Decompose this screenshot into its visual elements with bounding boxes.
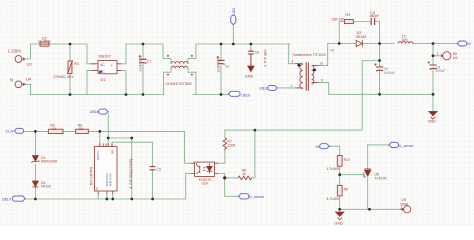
wire C8 gnd branch [250,44,252,50]
connector U3 [15,56,22,63]
svg-text:680pF: 680pF [370,14,380,18]
resistor R8 zigzag [238,176,252,180]
wire 5V flag to R10 [329,146,340,155]
capacitor C3 [150,167,156,170]
wire EN pin drop [99,131,101,146]
wire secondary pin6 down [318,83,329,95]
wire varistor bottom drop [69,74,71,95]
capacitor C4 [371,18,374,25]
varistor R1 [68,61,72,73]
svg-text:R3: R3 [345,13,350,17]
svg-text:R1: R1 [74,61,80,66]
resistor R10 [337,156,342,167]
svg-text:4.7nF 3kV: 4.7nF 3kV [263,49,268,67]
wire bottom mains rail left [31,94,164,96]
svg-text:SNK RTN: SNK RTN [108,173,112,186]
wire line to C3a [108,138,132,199]
wire choke top entry [163,44,171,64]
svg-text:10uF 400V: 10uF 400V [216,55,220,72]
svg-text:AC: AC [100,63,105,67]
gnd symbol secondary top [429,111,437,115]
wire bottom rail to C2 [193,94,221,96]
resistor R7 zigzag [223,138,227,150]
wire secondary gnd bottom rail [340,208,400,210]
svg-text:U$10: U$10 [241,94,250,98]
transformer T2 primary winding [300,65,303,89]
wire TL431 anode [367,178,369,210]
resistor R9 [337,185,342,196]
optocoupler U10 pin stubs [191,163,218,173]
svg-text:SR160: SR160 [356,35,366,39]
svg-text:U3: U3 [27,61,33,66]
transformer phase dot secondary [313,69,316,72]
svg-text:R10: R10 [344,158,350,162]
svg-text:P6KE200A: P6KE200A [41,159,58,163]
choke L5 bottom winding [171,66,188,68]
wire U3 to fuse [22,44,40,59]
wire secondary gnd rail [329,93,433,95]
svg-text:U4: U4 [26,77,32,82]
wire R7 top [224,130,226,138]
choke pin marks [167,55,193,76]
wire 5V tap line [225,61,380,131]
wire choke top exit and DC rail [188,44,290,64]
svg-text:GND: GND [245,75,254,79]
svg-text:TL431N: TL431N [374,177,387,181]
wire rail end to U$10 flag [221,94,228,96]
diode D3 TVS [32,156,38,162]
svg-text:T2: T2 [330,48,334,52]
capacitor C6 [429,65,436,69]
svg-text:1M: 1M [79,127,84,131]
inductor L2 [398,42,413,44]
flag U$2 top [231,15,236,25]
svg-text:U$16: U$16 [90,110,99,114]
svg-text:EN/UV: EN/UV [96,151,100,160]
svg-text:C3: C3 [156,167,160,171]
wire drain flag drop [107,114,109,147]
flag U$10 rail end [228,91,240,96]
svg-text:10uF 400V: 10uF 400V [138,54,142,71]
connector U9 [404,206,411,213]
svg-text:1M: 1M [51,127,56,131]
wire BP line to C3 [112,142,152,199]
wire source rail [25,198,186,200]
wire primary pin1 from flag [277,87,295,89]
wire EN line down to opto [185,131,192,163]
svg-text:4.7k 805: 4.7k 805 [326,197,339,201]
svg-text:U_sense: U_sense [399,144,414,148]
svg-text:4.7uF 50V(100nF): 4.7uF 50V(100nF) [129,159,133,189]
wire C5 leads [379,44,381,95]
svg-text:U6: U6 [453,56,458,60]
wire bridge AC2 down [87,70,95,94]
wire U6 branch [433,44,442,56]
TL431 U8 [365,170,371,176]
wire R10 R9 junction [339,166,341,185]
diode D4 [32,181,38,187]
svg-text:GND: GND [334,221,343,225]
wire divider to TL431 ref [340,174,364,176]
svg-text:R9: R9 [344,187,348,191]
optocoupler U10 body [195,162,215,176]
wire C1 leads [142,44,144,95]
svg-text:CHOKE EXT8W: CHOKE EXT8W [166,82,193,86]
wire choke bottom exit [188,68,196,94]
svg-text:1000uF: 1000uF [384,71,396,75]
connector U4 [15,81,22,88]
resistor R3 [344,19,353,23]
svg-text:5V: 5V [316,145,321,149]
svg-text:1: 1 [291,84,293,88]
wire primary pin3 [289,44,296,64]
wire bridge minus down [121,70,126,94]
transformer T2 secondary winding [312,66,314,84]
wire bridge plus up to DC rail [121,44,162,64]
flag CLN [14,128,23,133]
capacitor C2 [217,60,224,64]
svg-text:15R 2W: 15R 2W [332,18,345,22]
svg-text:5V: 5V [467,42,472,46]
svg-text:AC: AC [100,69,105,73]
IC U7 top pin stubs [100,143,112,146]
svg-text:D1: D1 [101,77,107,82]
svg-text:6: 6 [321,79,323,83]
wire snubber R3 C4 [339,22,379,44]
wire secondary top rail [328,43,458,45]
svg-text:L 230V: L 230V [8,49,21,54]
wire U$2 flag drop [232,25,234,44]
bridge rectifier D1 [98,61,117,74]
flag U_sense right [389,142,399,147]
svg-text:10: 10 [319,62,323,66]
wire secondary pin10 up [318,44,328,66]
svg-text:U$10: U$10 [2,197,11,201]
svg-text:C1: C1 [147,60,152,64]
wire opto emitter [186,174,192,200]
wire C6 leads and gnd drop [432,44,434,112]
svg-text:TNY267PN: TNY267PN [89,167,93,186]
transformer T2 core [306,62,308,90]
wire opto anode to R7 [218,150,225,163]
fuse U2 [40,42,49,46]
flag 5V right [457,41,467,46]
svg-text:120R: 120R [227,143,236,147]
wire varistor top drop [69,44,71,61]
resistor R6 [76,129,89,133]
wire U_sense right flag [368,144,389,146]
svg-text:U10: U10 [202,181,208,185]
flag U$16 TNY [99,109,109,114]
choke L5 top winding [171,62,188,64]
wire TNY bottom stubs [98,194,113,199]
wire D3 D4 column [34,131,36,199]
optocoupler U10 led [207,166,213,171]
svg-text:1uH: 1uH [401,38,408,42]
svg-text:U$2: U$2 [232,8,236,15]
svg-text:N: N [10,78,13,83]
svg-text:U_sense: U_sense [249,195,264,199]
svg-text:CLN: CLN [6,129,14,133]
IC U7 bottom pin stubs [98,191,113,194]
svg-text:FR109: FR109 [41,185,51,189]
transformer phase dot primary [298,64,301,67]
capacitor C8 [248,50,254,67]
wire R9 to gnd rail [339,196,341,209]
capacitor C5 [376,67,383,71]
svg-text:C8: C8 [255,51,259,55]
svg-text:DB107: DB107 [99,54,112,59]
gnd symbol divider [336,212,344,216]
svg-text:GND: GND [428,120,437,124]
net flags blue [12,15,466,201]
svg-text:1k: 1k [242,172,246,176]
flag U$10 bottom left [12,196,25,201]
wire choke bottom entry [164,68,171,94]
connector U6 [443,52,451,60]
flag U_sense left [238,194,249,199]
optocoupler U10 transistor [196,163,199,174]
IC U7 TNY267 body [95,147,118,192]
svg-text:Transformers TTF1022: Transformers TTF1022 [292,53,326,57]
wire EN line left [23,130,185,132]
svg-text:100uF: 100uF [436,69,446,73]
svg-text:1: 1 [437,52,439,56]
wire TL431 cathode [367,145,369,169]
wire U4 to bottom rail [22,84,30,94]
svg-text:C2: C2 [225,65,230,69]
svg-text:3: 3 [291,59,293,63]
resistor R2 [48,129,63,133]
diode D2 [356,40,362,46]
capacitor C1 [139,59,146,63]
wire C2 leads [220,44,222,95]
wire fuse to bridge corner [49,44,95,64]
wire opto cathode to R8 [218,130,255,178]
svg-text:BP: BP [110,150,114,154]
gnd arrow primary [248,66,254,72]
flag 5V divider [320,144,330,149]
svg-text:4.7k 805: 4.7k 805 [326,167,339,171]
junction dot opto cathode (dark red) [223,176,226,179]
flag U$16 primary [268,85,278,90]
wire to U_sense left flag [225,178,239,196]
svg-text:1A 250V: 1A 250V [38,39,52,43]
svg-text:U$16: U$16 [259,87,268,91]
svg-text:U9: U9 [401,198,406,202]
svg-text:1: 1 [401,205,403,209]
svg-text:275VAC 9KV: 275VAC 9KV [53,75,75,79]
